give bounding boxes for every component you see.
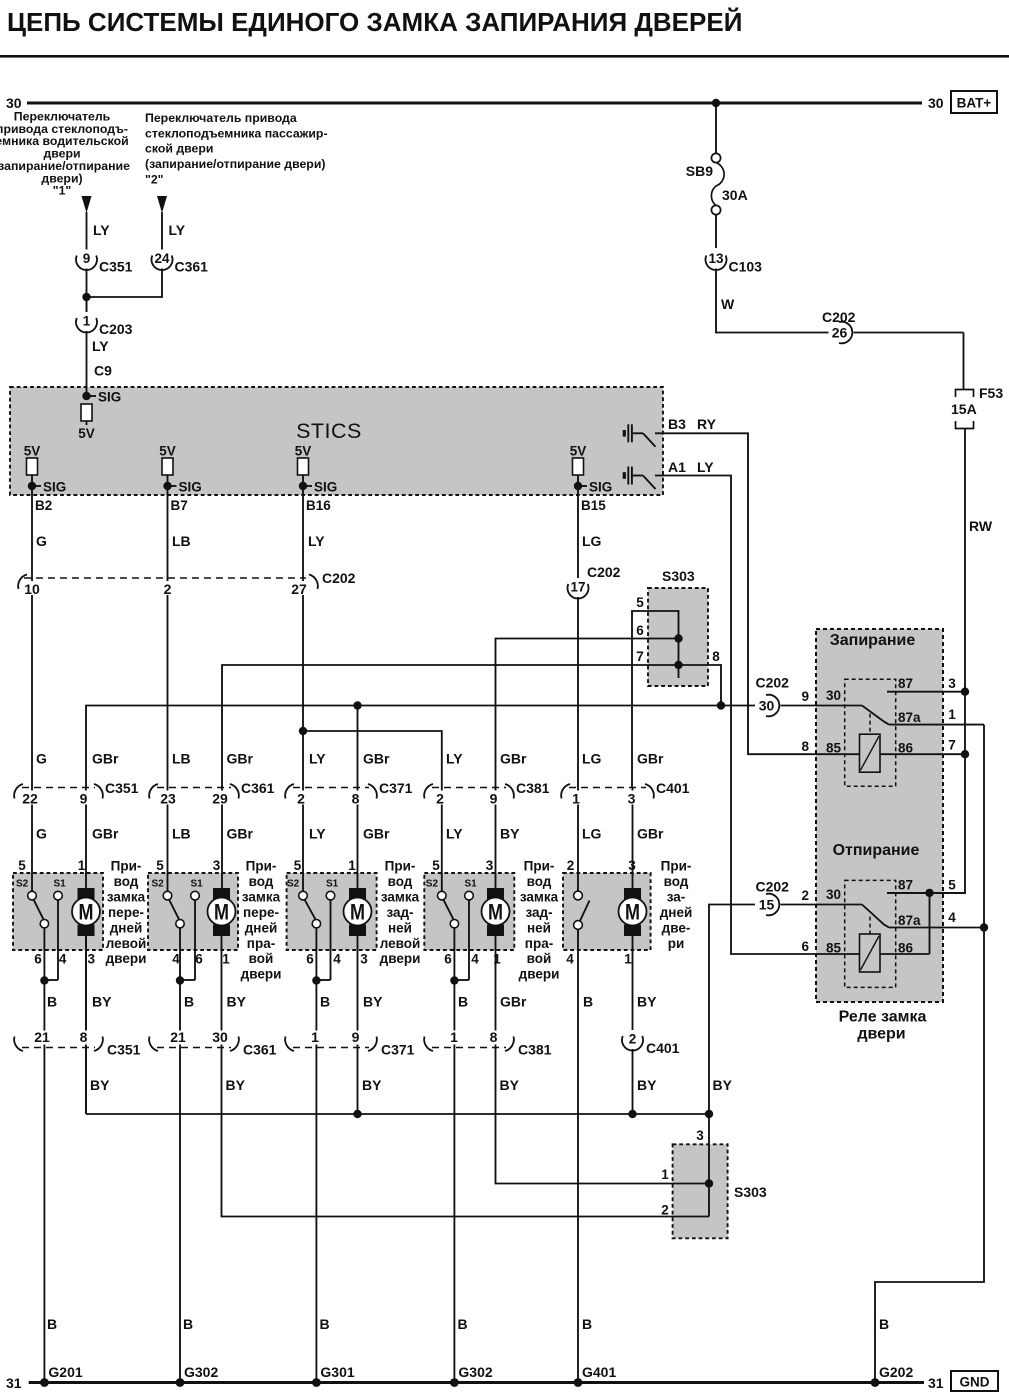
svg-text:вой: вой (527, 951, 552, 966)
wire B7 STICS to C361 (167, 494, 169, 891)
actuator 5 switch bottom contact (574, 921, 583, 930)
svg-text:2: 2 (801, 888, 809, 903)
svg-text:BY: BY (227, 994, 247, 1010)
actuator 2 box (148, 873, 238, 950)
actuator 4 box (424, 873, 514, 950)
actuator 1 motor M (78, 888, 95, 900)
svg-text:C351: C351 (107, 1042, 141, 1058)
svg-text:G202: G202 (879, 1364, 913, 1380)
svg-text:1: 1 (348, 858, 356, 873)
svg-text:S2: S2 (287, 879, 300, 890)
svg-text:5: 5 (432, 858, 440, 873)
relay lock (Запирание) (845, 679, 896, 786)
svg-text:вод: вод (114, 874, 139, 889)
wire F53 down RW (964, 429, 966, 755)
wire act2 motor to S303-2 (222, 936, 710, 1217)
actuator 4 junction (450, 976, 458, 984)
svg-text:86: 86 (898, 741, 914, 756)
S303 junction 7 (674, 661, 682, 669)
svg-text:3: 3 (213, 858, 221, 873)
STICS box (10, 387, 663, 495)
S303 top box (648, 588, 708, 686)
svg-text:4: 4 (566, 952, 574, 967)
actuator 5 switch top contact (574, 891, 583, 900)
switch 2 arrow (157, 196, 167, 213)
svg-text:S2: S2 (152, 879, 165, 890)
svg-text:1: 1 (661, 1167, 669, 1182)
svg-text:24: 24 (154, 251, 170, 266)
svg-text:LG: LG (582, 826, 602, 842)
fuse SB9 (711, 153, 720, 162)
svg-text:GBr: GBr (92, 751, 119, 767)
svg-text:замка: замка (107, 889, 146, 904)
wire act1 B to G201 (43, 981, 45, 1382)
svg-text:Запирание: Запирание (830, 632, 916, 649)
actuator 2 S1 wire elbow (180, 979, 195, 981)
connector C202 pin 17 (567, 578, 589, 597)
actuator 4 switch arm (444, 900, 454, 920)
svg-text:85: 85 (826, 741, 842, 756)
svg-text:двери: двери (241, 967, 282, 982)
svg-text:GBr: GBr (637, 826, 664, 842)
actuator 2 switch arm (169, 900, 179, 920)
svg-text:5: 5 (636, 595, 644, 610)
svg-text:GBr: GBr (500, 994, 527, 1010)
svg-text:C381: C381 (518, 1042, 552, 1058)
connector C202 pin 30 (756, 694, 781, 717)
svg-text:23: 23 (160, 790, 176, 806)
svg-text:C401: C401 (656, 780, 690, 796)
svg-text:G302: G302 (458, 1364, 492, 1380)
svg-text:C202: C202 (322, 570, 356, 586)
svg-text:2: 2 (661, 1203, 669, 1218)
wire C361-24 to junction (87, 268, 163, 297)
svg-text:пра-: пра- (247, 936, 275, 951)
svg-text:C202: C202 (822, 309, 856, 325)
svg-text:LB: LB (172, 533, 191, 549)
actuator 4 arm wire down (453, 928, 455, 980)
actuator 1 S1 wire elbow (44, 979, 58, 981)
wire A1 LY to unlock relay 85 (655, 476, 860, 955)
svg-text:ней: ней (527, 920, 551, 935)
svg-text:LY: LY (309, 751, 326, 767)
svg-text:BY: BY (92, 994, 112, 1010)
switch 1 arrow (82, 196, 92, 213)
svg-text:87: 87 (898, 676, 913, 691)
junction act3 motor (353, 701, 361, 709)
junction BY unlock-30 (705, 1110, 713, 1118)
svg-text:S1: S1 (326, 879, 339, 890)
svg-text:30: 30 (826, 887, 841, 902)
svg-text:двери: двери (519, 967, 560, 982)
actuator 3 S1 wire elbow (316, 979, 330, 981)
svg-text:B: B (184, 994, 194, 1010)
svg-text:дней: дней (660, 905, 693, 920)
wire unlock 87-86 link (929, 893, 931, 954)
wire junction to C203 (86, 297, 88, 315)
wire act3 B to G301 (315, 981, 317, 1382)
junction BY act3 (353, 1110, 361, 1118)
svg-text:GND: GND (960, 1375, 990, 1390)
svg-text:30: 30 (212, 1029, 228, 1045)
bus 30 line (27, 102, 922, 105)
svg-text:S303: S303 (662, 568, 695, 584)
svg-text:S1: S1 (191, 879, 204, 890)
svg-text:G: G (36, 533, 47, 549)
svg-text:вод: вод (249, 874, 274, 889)
svg-text:3: 3 (628, 790, 636, 806)
svg-text:SIG: SIG (314, 480, 337, 495)
wire act2 B to G302 (179, 981, 181, 1382)
svg-text:C371: C371 (379, 780, 413, 796)
svg-text:GBr: GBr (92, 826, 119, 842)
connector C381 row 1/8 (432, 1047, 506, 1049)
svg-text:Реле замка: Реле замка (839, 1009, 927, 1026)
svg-text:SIG: SIG (43, 480, 66, 495)
svg-text:ской двери: ской двери (145, 142, 213, 156)
S303 bottom box (673, 1144, 728, 1238)
svg-text:двери: двери (380, 951, 421, 966)
svg-text:C103: C103 (729, 259, 763, 275)
wire act5 motor to BY bus (632, 936, 634, 1114)
svg-text:B7: B7 (171, 498, 188, 513)
connector C202 pin 15 (756, 893, 781, 916)
svg-text:LY: LY (308, 533, 325, 549)
ground bus (29, 1381, 924, 1384)
svg-text:LY: LY (446, 826, 463, 842)
wire act4 B to G302b (453, 981, 455, 1382)
svg-text:STICS: STICS (296, 419, 362, 443)
svg-text:5V: 5V (78, 426, 95, 441)
svg-text:BY: BY (226, 1077, 246, 1093)
svg-text:При-: При- (661, 859, 692, 874)
svg-text:21: 21 (170, 1029, 186, 1045)
actuator 1 switch arm (34, 900, 44, 920)
svg-text:15A: 15A (951, 401, 977, 417)
svg-text:B: B (458, 1316, 468, 1332)
junction switch wires (82, 293, 90, 301)
svg-text:4: 4 (333, 952, 341, 967)
wire switch2 to C361 (161, 212, 163, 250)
svg-text:3: 3 (87, 952, 95, 967)
wire C203 to STICS (86, 330, 88, 396)
actuator 2 motor M (213, 888, 230, 900)
svg-text:8: 8 (352, 790, 360, 806)
actuator 1 box (13, 873, 103, 950)
svg-text:31: 31 (928, 1375, 944, 1391)
fuse F53 (956, 390, 974, 398)
svg-text:8: 8 (801, 739, 809, 754)
svg-text:9: 9 (352, 1029, 360, 1045)
connector C351 row 22/9 (22, 787, 95, 789)
actuator 5 box (563, 873, 651, 950)
svg-text:RY: RY (697, 416, 717, 432)
svg-text:22: 22 (22, 790, 38, 806)
svg-text:SB9: SB9 (686, 163, 713, 179)
svg-text:8: 8 (712, 649, 720, 664)
svg-text:вой: вой (249, 951, 274, 966)
svg-text:LB: LB (172, 826, 191, 842)
svg-text:BY: BY (500, 1077, 520, 1093)
svg-text:C202: C202 (756, 675, 790, 691)
ground connections (40, 1378, 49, 1387)
svg-text:5: 5 (948, 877, 956, 892)
svg-text:LY: LY (697, 459, 714, 475)
svg-text:(запирание/отпирание двери): (запирание/отпирание двери) (145, 157, 325, 171)
svg-text:87a: 87a (898, 710, 921, 725)
svg-text:B: B (879, 1316, 889, 1332)
actuator 3 switch arm (305, 900, 316, 920)
svg-text:BAT+: BAT+ (957, 96, 992, 111)
wire act4 motor top (495, 788, 497, 890)
wire C202-15 to relay (775, 904, 862, 906)
svg-text:двери: двери (106, 951, 147, 966)
junction unlock 87a (980, 923, 988, 931)
S303 inner stub (678, 639, 680, 679)
svg-text:9: 9 (83, 251, 91, 266)
junction bus/SB9 (712, 99, 720, 107)
wire C351-9 down (86, 268, 88, 312)
svg-text:ри: ри (668, 936, 685, 951)
svg-text:G401: G401 (582, 1364, 616, 1380)
svg-text:GBr: GBr (363, 751, 390, 767)
svg-text:M: M (214, 900, 229, 925)
switch contact B3 (623, 430, 626, 437)
svg-text:G301: G301 (320, 1364, 354, 1380)
relay outer box (816, 629, 943, 1002)
connector C361 row 23/29 (157, 787, 231, 789)
S303 bottom junction (705, 1179, 713, 1187)
wire act5 motor top (632, 788, 634, 890)
svg-text:пере-: пере- (243, 905, 279, 920)
svg-text:6: 6 (34, 952, 42, 967)
wire act4 motor to S303-1 (496, 936, 710, 1184)
wire bus to S303-3 (708, 1114, 710, 1184)
svg-text:21: 21 (34, 1029, 50, 1045)
svg-text:S2: S2 (16, 879, 29, 890)
BAT+ box (951, 91, 997, 113)
svg-text:SIG: SIG (589, 480, 612, 495)
svg-text:2: 2 (164, 581, 172, 597)
svg-text:F53: F53 (979, 385, 1003, 401)
svg-text:S1: S1 (54, 879, 67, 890)
wire lock 87a down (875, 725, 984, 1381)
svg-text:6: 6 (195, 952, 203, 967)
S303 bottom pin2 riser (708, 1184, 710, 1217)
svg-text:замка: замка (242, 889, 281, 904)
svg-text:29: 29 (212, 790, 228, 806)
svg-text:При-: При- (385, 859, 416, 874)
svg-text:30: 30 (928, 95, 944, 111)
svg-text:C9: C9 (94, 363, 112, 379)
svg-text:B3: B3 (668, 416, 686, 432)
wire B15 STICS to C401 (577, 494, 579, 891)
resistor 5V C9 (81, 404, 92, 421)
svg-text:2: 2 (629, 1032, 637, 1047)
wire switch1 to C351 (86, 212, 88, 250)
svg-text:LB: LB (172, 751, 191, 767)
svg-text:BY: BY (362, 1077, 382, 1093)
svg-text:LY: LY (169, 222, 186, 238)
S303 pin5 wire from C401 motor (632, 611, 679, 788)
actuator 4 S1 wire elbow (454, 979, 469, 981)
svg-text:9: 9 (801, 689, 809, 704)
svg-text:вод: вод (388, 874, 413, 889)
svg-text:87a: 87a (898, 913, 921, 928)
svg-text:LY: LY (446, 751, 463, 767)
svg-text:две-: две- (662, 920, 691, 935)
svg-text:5V: 5V (24, 444, 41, 459)
svg-text:B: B (47, 994, 57, 1010)
svg-text:1: 1 (450, 1029, 458, 1045)
svg-text:4: 4 (471, 952, 479, 967)
svg-text:замка: замка (381, 889, 420, 904)
svg-text:9: 9 (490, 790, 498, 806)
wire B16 STICS to C371 (302, 494, 304, 891)
svg-text:6: 6 (306, 952, 314, 967)
S303 pin8 wire to main node (679, 665, 722, 706)
svg-text:1: 1 (311, 1029, 319, 1045)
svg-text:При-: При- (246, 859, 277, 874)
actuator 2 junction (176, 976, 184, 984)
svg-text:9: 9 (80, 790, 88, 806)
svg-text:B: B (583, 994, 593, 1010)
wire C103 down + turn right (716, 268, 964, 333)
svg-text:LY: LY (309, 826, 326, 842)
wire act3 motor down (357, 706, 359, 892)
svg-text:GBr: GBr (500, 751, 527, 767)
svg-text:LG: LG (582, 751, 602, 767)
svg-text:3: 3 (948, 676, 956, 691)
connector C203 pin 1 (76, 312, 98, 331)
svg-text:замка: замка (520, 889, 559, 904)
svg-text:5V: 5V (295, 444, 312, 459)
svg-text:BY: BY (637, 1077, 657, 1093)
svg-text:C202: C202 (587, 564, 621, 580)
svg-text:G: G (36, 751, 47, 767)
svg-text:C351: C351 (105, 780, 139, 796)
svg-text:BY: BY (90, 1077, 110, 1093)
svg-text:30A: 30A (722, 187, 748, 203)
actuator 4 motor M (487, 888, 504, 900)
svg-text:6: 6 (636, 623, 644, 638)
connector C103 pin 13 (705, 250, 727, 269)
svg-text:1: 1 (78, 858, 86, 873)
actuator 1 junction (40, 976, 48, 984)
svg-text:C361: C361 (241, 780, 275, 796)
svg-text:B: B (320, 1316, 330, 1332)
connector C351 row 21/8 (22, 1047, 95, 1049)
svg-text:17: 17 (570, 580, 585, 595)
svg-text:W: W (721, 296, 735, 312)
svg-text:1: 1 (624, 952, 632, 967)
junction BY act5 (628, 1110, 636, 1118)
svg-text:87: 87 (898, 877, 913, 892)
connector C381 row 2/9 (432, 787, 506, 789)
svg-text:S2: S2 (426, 879, 439, 890)
svg-text:C351: C351 (99, 259, 133, 275)
svg-text:4: 4 (948, 910, 956, 925)
wire C202-30 to relay (775, 705, 862, 707)
svg-text:5: 5 (294, 858, 302, 873)
wire act1 motor to lock relay 30 (86, 706, 755, 1115)
svg-text:7: 7 (948, 738, 956, 753)
svg-text:A1: A1 (668, 459, 686, 475)
svg-text:1: 1 (948, 707, 956, 722)
svg-text:левой: левой (106, 936, 147, 951)
wire B2 STICS to C351 (31, 494, 33, 891)
svg-text:C203: C203 (99, 321, 133, 337)
wire unlock 30 from BY bus (709, 905, 755, 1115)
connector C202 pin 26 (829, 321, 854, 344)
svg-text:8: 8 (80, 1029, 88, 1045)
wire B3 RY to lock relay 85 (655, 433, 859, 754)
connector C371 row 2/8 (293, 787, 369, 789)
connector C361 pin 24 (151, 250, 173, 269)
svg-text:27: 27 (291, 581, 307, 597)
svg-text:1: 1 (83, 314, 91, 329)
S303 junction 6 (674, 634, 682, 642)
svg-text:"2": "2" (145, 172, 164, 186)
svg-text:B: B (183, 1316, 193, 1332)
svg-text:BY: BY (713, 1077, 733, 1093)
svg-text:Отпирание: Отпирание (833, 842, 920, 859)
GND box (951, 1371, 998, 1391)
svg-text:GBr: GBr (227, 826, 254, 842)
svg-text:5: 5 (156, 858, 164, 873)
svg-text:15: 15 (759, 897, 775, 913)
svg-text:RW: RW (969, 518, 993, 534)
actuator 3 box (287, 873, 377, 950)
svg-text:G302: G302 (184, 1364, 218, 1380)
svg-text:LY: LY (93, 222, 110, 238)
connector C401 row 1/3 (569, 787, 646, 789)
wire act3 motor to BY bus (357, 936, 359, 1114)
actuator 3 motor M (349, 888, 366, 900)
BY bus (86, 1113, 709, 1115)
svg-text:GBr: GBr (363, 826, 390, 842)
svg-text:GBr: GBr (637, 751, 664, 767)
svg-text:10: 10 (24, 581, 40, 597)
svg-text:дней: дней (110, 920, 143, 935)
actuator 5 switch arm (580, 901, 590, 921)
svg-text:стеклоподъемника пассажир-: стеклоподъемника пассажир- (145, 126, 328, 140)
node C9 SIG (82, 392, 90, 400)
svg-text:G: G (36, 826, 47, 842)
svg-text:3: 3 (696, 1128, 704, 1143)
actuator 2 arm wire down (179, 928, 181, 980)
svg-text:B: B (582, 1316, 592, 1332)
relay unlock (Отпирание) (845, 880, 896, 987)
svg-text:При-: При- (524, 859, 555, 874)
svg-text:BY: BY (363, 994, 383, 1010)
svg-text:S303: S303 (734, 1184, 767, 1200)
svg-text:8: 8 (490, 1029, 498, 1045)
svg-text:26: 26 (832, 325, 848, 341)
svg-text:SIG: SIG (179, 480, 202, 495)
svg-text:B16: B16 (306, 498, 331, 513)
svg-text:5V: 5V (570, 444, 587, 459)
svg-text:SIG: SIG (98, 390, 121, 405)
connector C361 row 21/30 (157, 1047, 231, 1049)
svg-text:M: M (488, 900, 503, 925)
junction RW/87 lock (961, 688, 969, 696)
junction S303-8 (717, 701, 725, 709)
svg-text:пере-: пере- (108, 905, 144, 920)
wire to F53 (963, 333, 965, 391)
svg-text:30: 30 (759, 698, 775, 714)
svg-text:1: 1 (222, 952, 230, 967)
